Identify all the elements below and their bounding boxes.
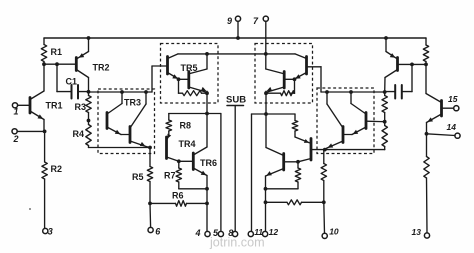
wire right TR2 base (398, 63, 427, 65)
transistor TR1 (29, 98, 32, 114)
transistor TR5 pair - second device (187, 72, 190, 89)
svg-text:R8: R8 (180, 121, 192, 131)
node TR5 collector / vertical (205, 52, 209, 56)
wire pin1 to TR1 base (18, 104, 30, 106)
wire SUB to pin 8 (234, 106, 236, 232)
node right TR6 emitter / R6 wire (264, 200, 268, 204)
svg-text:3: 3 (48, 227, 53, 237)
transistor TR2 (75, 58, 78, 71)
svg-text:C1: C1 (66, 77, 78, 87)
node right TR6 emitter / R7 wire (264, 187, 268, 191)
resistor right mirror of R1 (425, 38, 427, 45)
svg-text:TR4: TR4 (179, 139, 196, 149)
node C1 branch junction (55, 62, 59, 66)
node TR1 emitter / R2 junction (43, 130, 47, 134)
transistor TR3 pair - first device (106, 113, 109, 129)
node X junction (205, 112, 209, 116)
resistor right mirror of R3 (384, 92, 386, 96)
wire node X2 vertical (265, 93, 267, 114)
resistor right TR5 internal emitter (294, 79, 296, 93)
svg-text:R1: R1 (51, 47, 63, 57)
svg-text:2: 2 (13, 134, 19, 144)
wire right TR4 base (311, 149, 325, 151)
resistor TR5 internal emitter (178, 79, 180, 93)
transistor right mirror of TR4 (310, 139, 313, 161)
wire right TR3 base (366, 120, 385, 123)
svg-text:14: 14 (447, 122, 457, 132)
node TR3b emitter / TR4 base (148, 146, 152, 150)
wire pin2 to TR1 emitter (17, 130, 45, 132)
dashed box around TR5 pair (161, 44, 219, 104)
pin 1 (12, 103, 17, 108)
node right TR5a emitter (293, 77, 297, 81)
wire TR5 collector rail to pin 7 node (178, 53, 295, 55)
pin 10 (322, 233, 327, 238)
pin 7 (263, 16, 268, 21)
wire R4 bottom to TR4 base node (89, 147, 151, 149)
transistor right mirror of TR2 (396, 58, 399, 71)
dashed box around right-side pair of TR3 mirror (317, 88, 374, 154)
pin 5 (218, 231, 223, 236)
svg-text:TR6: TR6 (200, 158, 217, 168)
svg-text:R3: R3 (75, 102, 87, 112)
dashed box around TR3 pair (98, 89, 155, 154)
transistor right mirror of TR5 - second device (283, 72, 286, 89)
node TR4 collector / TR6 base / R7 (177, 159, 181, 163)
wire pin9 to rail (237, 21, 239, 38)
svg-text:4: 4 (195, 228, 201, 238)
node right TR3a collector (349, 90, 353, 94)
svg-text:13: 13 (412, 227, 422, 237)
pin 4 (205, 231, 210, 236)
node right TR4 collector / TR6 base (296, 160, 300, 164)
node right TR3b emitter / TR4 base (323, 148, 327, 152)
wire TR2 base (44, 63, 76, 65)
svg-text:1: 1 (14, 107, 19, 117)
resistor R6 (150, 202, 176, 204)
resistor right mirror of R5 (323, 150, 325, 164)
resistor R1 (43, 38, 45, 45)
resistor R5 (149, 148, 151, 167)
svg-text:12: 12 (269, 227, 279, 237)
node right R6 / R5 junction (322, 200, 326, 204)
node R1 bottom / TR1 collector junction (42, 62, 46, 66)
wire node X to pin 5 (207, 113, 221, 115)
svg-text:R6: R6 (172, 191, 184, 201)
pin 15 (454, 106, 459, 111)
capacitor C1 (56, 64, 58, 91)
substrate SUB bar (227, 105, 244, 107)
transistor right mirror of TR6 (282, 154, 285, 171)
resistor right mirror of R2 (426, 134, 428, 157)
wire to pin 6 (149, 203, 152, 227)
wire pin14 (427, 134, 456, 136)
svg-text:TR1: TR1 (46, 101, 63, 111)
wire node X vertical (206, 93, 208, 113)
svg-text:jotrin.com: jotrin.com (209, 236, 265, 250)
resistor right mirror of R6 (266, 201, 288, 203)
pin 2 (12, 129, 17, 134)
svg-text:R4: R4 (73, 129, 85, 139)
pin 3 (43, 228, 48, 233)
transistor TR5 pair - first device (166, 57, 169, 75)
node right C1 branch junction (410, 63, 414, 67)
svg-text:9: 9 (227, 16, 232, 26)
svg-text:15: 15 (448, 94, 458, 104)
svg-text:R5: R5 (132, 172, 144, 182)
wire riser to TR5 base (151, 66, 153, 92)
node right TR1 emitter / pin14 junction (425, 132, 429, 136)
svg-text:TR2: TR2 (93, 63, 110, 73)
resistor R8 (169, 113, 207, 115)
resistor R7 (178, 161, 180, 168)
svg-text:R2: R2 (51, 164, 63, 174)
wire to pin 10 (323, 202, 326, 233)
node TR5 emitter bottom (205, 91, 209, 95)
resistor right mirror of R4 (384, 122, 386, 126)
transistor right mirror of TR1 (440, 101, 443, 117)
node TR2 emitter on rail (87, 36, 91, 40)
resistor R2 (44, 131, 46, 162)
node right TR2 emitter on rail (384, 36, 388, 40)
node right TR5 emitter bottom (264, 91, 268, 95)
node TR3a collector (120, 90, 124, 94)
transistor right mirror of TR3 - first device (365, 113, 368, 129)
svg-text:TR3: TR3 (124, 98, 141, 108)
pin 14 (455, 133, 460, 138)
node TR6 emitter / R6 wire (205, 202, 209, 206)
node X2 junction (264, 112, 268, 116)
pin 13 (424, 233, 429, 238)
node TR6 emitter / R7 wire (205, 187, 209, 191)
transistor right mirror of TR5 - first device (305, 57, 308, 75)
node right R3/R4 junction (383, 120, 387, 124)
node A2 junction (383, 90, 387, 94)
wire top supply rail (44, 37, 426, 39)
dashed box around right-side pair of TR5 mirror (255, 44, 313, 104)
pin 12 (263, 231, 268, 236)
node R5 bottom / R6 junction (148, 202, 152, 206)
node right TR3b collector (325, 90, 329, 94)
wire pin7 down (265, 21, 267, 54)
node right R1 bottom junction (424, 63, 428, 67)
wire node A2 to right TR3 box (321, 91, 385, 93)
node A junction (87, 90, 91, 94)
pin 6 (148, 227, 153, 232)
wire node X2 to pin 11 (252, 113, 267, 115)
speck (29, 208, 31, 210)
transistor TR4 (165, 137, 168, 159)
wire right R4 bottom to base node (325, 149, 385, 151)
transistor right mirror of TR3 - second device (342, 127, 345, 143)
node R3/R4 junction (87, 119, 91, 123)
resistor R3 (86, 96, 91, 113)
svg-text:10: 10 (329, 227, 339, 237)
svg-text:R7: R7 (164, 171, 176, 181)
wire node A to TR3 box (89, 91, 153, 93)
resistor right mirror of R7 (297, 162, 299, 168)
node pin9 on rail (236, 36, 240, 40)
transistor TR3 pair - second device (129, 127, 132, 143)
resistor R4 (86, 125, 91, 146)
transistor TR6 (192, 153, 195, 170)
pin 11 (248, 231, 253, 236)
node pin7 / TR5 collectors (264, 52, 268, 56)
pin 9 (235, 16, 240, 21)
resistor right mirror of R8 (266, 113, 295, 115)
pin 8 (233, 231, 238, 236)
svg-text:SUB: SUB (226, 95, 246, 106)
capacitor right mirror of C1 (411, 64, 413, 91)
wire pin15 to right TR1 base (442, 107, 454, 109)
node TR3b collector (144, 90, 148, 94)
node TR5a emitter / TR5b base (177, 77, 181, 81)
